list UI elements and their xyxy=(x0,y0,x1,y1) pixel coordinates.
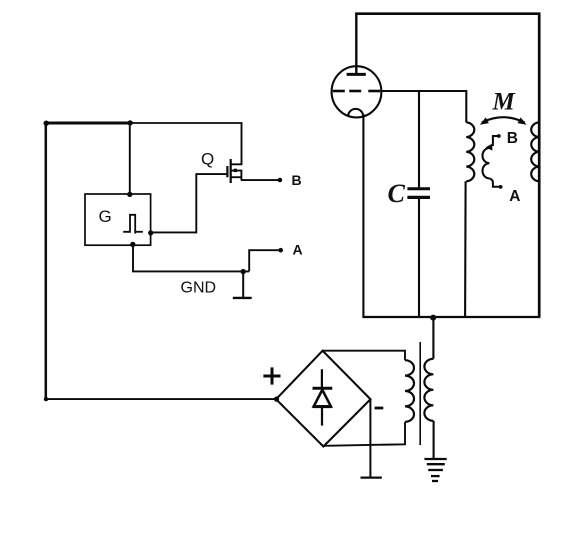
bridge diode cathode bar xyxy=(313,387,333,390)
wire bottom to bridge xyxy=(46,398,277,400)
inductor L1 bottom lead wire xyxy=(464,181,467,317)
wire drain lead xyxy=(231,123,242,164)
tube V1 grid (dashed) xyxy=(333,90,381,93)
svg-text:GND: GND xyxy=(181,280,217,297)
svg-text:B: B xyxy=(507,130,518,147)
transformer T1 core xyxy=(419,342,421,445)
tube V1 cathode xyxy=(348,109,363,116)
node B terminal xyxy=(278,178,283,183)
transistor Q channel bar xyxy=(230,159,232,183)
wire bottom of tank loop xyxy=(362,316,540,318)
node A tap dot xyxy=(499,185,503,189)
wire right side of tank loop xyxy=(538,13,541,318)
svg-text:C: C xyxy=(388,179,406,208)
bridge diode lead bottom xyxy=(321,408,323,426)
capacitor C plates xyxy=(407,187,430,190)
wire secondary to ground xyxy=(433,421,435,459)
mutual inductance arrow xyxy=(482,117,525,122)
tube V1 envelope xyxy=(332,66,382,117)
wire grid to tank xyxy=(380,91,466,123)
earth ground xyxy=(424,459,446,481)
node supply mid xyxy=(127,120,132,125)
tube V1 cathode lead wire xyxy=(362,114,364,317)
bridge diode base bar xyxy=(313,405,332,408)
tube V1 plate xyxy=(347,73,366,76)
node A terminal xyxy=(278,248,283,253)
pulse symbol xyxy=(123,215,135,234)
minus terminal bar xyxy=(361,476,382,478)
generator G box xyxy=(85,194,151,245)
svg-text:Q: Q xyxy=(201,149,214,168)
bridge diode lead top xyxy=(321,369,323,387)
node gnd junction xyxy=(241,269,246,274)
wire gnd lead xyxy=(242,271,244,297)
transformer T1 secondary winding xyxy=(424,359,433,421)
transistor Q body stub xyxy=(231,171,242,181)
svg-text:G: G xyxy=(99,207,112,226)
junction tank bottom xyxy=(430,315,436,321)
plus label xyxy=(263,367,280,384)
svg-text:A: A xyxy=(509,188,520,205)
feedback winding tap xyxy=(493,136,499,146)
capacitor C bottom lead wire xyxy=(418,199,420,317)
node G output xyxy=(148,230,153,235)
transformer T1 primary winding xyxy=(405,360,414,422)
bridge rectifier BR1 diamond xyxy=(276,351,370,447)
capacitor C top lead wire xyxy=(418,91,420,188)
minus label xyxy=(375,407,384,410)
svg-text:A: A xyxy=(293,242,303,258)
wire bridge to primary bottom xyxy=(324,422,405,446)
wire minus terminal xyxy=(369,399,371,477)
inductor L1 xyxy=(466,122,474,181)
tube V1 plate lead wire xyxy=(355,14,357,73)
svg-text:B: B xyxy=(292,172,302,188)
svg-text:M: M xyxy=(492,89,516,116)
wire G input lead xyxy=(129,123,131,194)
wire gate lead xyxy=(151,174,228,232)
node bridge + corner xyxy=(274,397,279,402)
wire junction to transformer xyxy=(432,317,434,359)
wire left vertical xyxy=(45,123,48,400)
gnd bar xyxy=(233,297,252,299)
wire left supply top (thick) xyxy=(45,122,131,125)
node bottom left corner xyxy=(44,397,48,401)
node G bottom xyxy=(130,242,135,247)
bridge diode triangle xyxy=(314,390,331,407)
wire source to B xyxy=(241,179,280,181)
node supply left xyxy=(44,121,49,126)
wire top of tank loop xyxy=(355,12,540,15)
inductor L2 xyxy=(531,122,539,181)
node B tap dot xyxy=(497,134,501,138)
transistor Q gate bar xyxy=(226,166,228,177)
transistor Q body dot xyxy=(234,169,237,172)
transistor Q source stub xyxy=(231,176,242,178)
wire G bottom lead xyxy=(133,245,249,272)
wire A branch xyxy=(249,250,281,271)
wire bridge to primary top xyxy=(323,351,405,361)
wire supply top thin xyxy=(130,122,243,124)
node G input xyxy=(127,192,132,197)
